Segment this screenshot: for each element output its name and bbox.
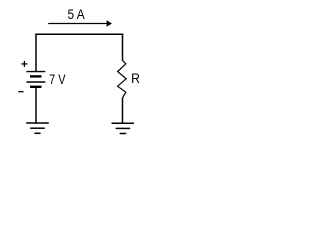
wire top horizontal from V1 to R — [35, 33, 123, 35]
ground under battery — [26, 123, 49, 133]
svg-text:5 A: 5 A — [68, 6, 86, 22]
battery V1 plate 3 (long) — [26, 81, 45, 83]
resistor R zigzag — [118, 61, 127, 98]
wire battery to ground — [35, 88, 37, 123]
minus sign of battery — [18, 91, 23, 93]
battery V1 plate 1 (long, +) — [26, 71, 45, 73]
wire right vertical from top wire to resistor — [122, 34, 124, 61]
wire resistor to ground — [122, 98, 124, 124]
svg-text:R: R — [131, 70, 140, 86]
svg-text:7 V: 7 V — [49, 71, 66, 87]
plus sign of battery — [21, 61, 27, 67]
battery V1 plate 4 (short, thick) — [30, 86, 42, 88]
ground under resistor — [112, 123, 135, 133]
current arrow 5 A — [48, 20, 112, 27]
wire left vertical from top wire to battery + plate — [35, 34, 37, 72]
battery V1 plate 2 (short, thick) — [30, 75, 42, 77]
